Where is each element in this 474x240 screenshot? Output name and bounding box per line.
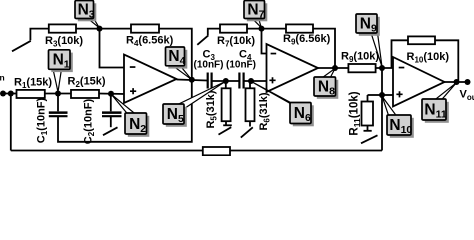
svg-text:R11(10k): R11(10k) <box>349 91 362 135</box>
node N10 tail <box>382 97 396 116</box>
node N8 box <box>317 80 339 99</box>
node N3 tail <box>88 18 100 28</box>
op-amp U2 plus sign <box>269 77 275 83</box>
op-amp U1 <box>124 55 177 104</box>
svg-text:R7(10k): R7(10k) <box>217 35 255 48</box>
resistor R8 <box>286 24 313 32</box>
node N4 box <box>168 50 187 69</box>
op-amp U2 minus sign <box>271 53 277 55</box>
switch S3 blade (R5 fault switch) <box>219 127 232 134</box>
resistor R6 (vertical) <box>249 81 251 88</box>
resistor R1 <box>17 90 45 98</box>
wire left feedback riser <box>10 94 12 151</box>
wire R9 to U3 -in <box>376 67 394 69</box>
resistor R9 <box>348 64 375 72</box>
node N8 tail <box>323 69 335 78</box>
resistor R10 <box>408 36 435 44</box>
node N4 tail <box>173 66 192 80</box>
node N2 box <box>128 116 150 137</box>
wire R1 to node A <box>45 93 71 95</box>
node output terminal <box>465 79 471 85</box>
resistor R4 <box>131 24 159 32</box>
wire R4 feedback to U1 output column <box>159 29 192 79</box>
node N6 tail <box>251 82 296 108</box>
svg-text:R2(15k): R2(15k) <box>68 76 106 89</box>
node U2 output <box>332 65 338 71</box>
wire U1 -in drop <box>100 29 125 68</box>
callout tails <box>53 18 456 115</box>
op-amp U3 plus sign <box>396 91 402 97</box>
node C3-C4 (R5 top) <box>223 78 229 84</box>
wire U2 -in drop <box>262 29 268 54</box>
wire bottom feedback rail <box>11 150 382 152</box>
resistor R3 <box>49 24 76 32</box>
node N9 box <box>359 17 380 36</box>
node N1 tail <box>53 69 62 92</box>
switch S6 blade (R11 fault switch) <box>361 135 378 143</box>
svg-text:R4(6.56k): R4(6.56k) <box>126 35 174 48</box>
wire C1 bottom to U1 output rail <box>58 79 192 142</box>
node R3-R4 (U1 -in net) <box>97 26 103 32</box>
resistor R11 (vertical) <box>368 94 383 96</box>
wire R10 left to -in3 <box>392 40 409 68</box>
wire U2 output / R9 row <box>318 67 348 69</box>
capacitor C3 (series) <box>207 73 209 89</box>
capacitor C2 <box>110 94 112 112</box>
node N10 box <box>390 118 414 138</box>
node N11 tail <box>436 83 457 100</box>
svg-text:R6(31k): R6(31k) <box>258 92 271 130</box>
op-amp U2 <box>267 44 319 92</box>
op-amp U3 minus sign <box>399 67 405 69</box>
capacitor C4 (series) <box>238 73 240 89</box>
node B (R2-C2-U1 +in junction) <box>108 91 114 97</box>
node input terminal <box>0 91 6 97</box>
resistor R5 (vertical) <box>225 81 227 88</box>
wire U1 output <box>177 80 208 81</box>
resistor R2 <box>71 90 99 98</box>
svg-text:C2(10nF): C2(10nF) <box>83 98 96 144</box>
node N2 tail <box>112 95 135 114</box>
svg-text:R1(15k): R1(15k) <box>14 77 52 90</box>
node N6 box <box>293 105 314 126</box>
node N7 tail <box>252 18 261 27</box>
svg-text:(10nF): (10nF) <box>226 59 256 70</box>
callout boxes <box>49 1 449 138</box>
node N5 box <box>166 107 187 127</box>
wire U3 output <box>445 81 471 83</box>
node A (R1-R2-C1 junction) <box>55 91 61 97</box>
node R9 out <box>379 65 385 71</box>
wire R8 feedback to U2 output column <box>313 29 335 68</box>
wire +in3 column down to feedback rail <box>381 68 383 151</box>
svg-text:(10nF): (10nF) <box>194 59 224 70</box>
wire R2 to node B <box>99 93 125 96</box>
wire R7 to R8 <box>247 28 286 30</box>
switch S1 blade (R3 fault switch) <box>12 41 31 52</box>
node U1 output <box>189 77 195 83</box>
switch S4 blade (R6 fault switch) <box>241 127 253 137</box>
resistor R7 <box>220 24 247 32</box>
svg-text:R9(6.56k): R9(6.56k) <box>283 33 331 46</box>
op-amp U1 minus sign <box>130 66 136 68</box>
svg-text:C1(10nF): C1(10nF) <box>36 97 49 143</box>
svg-text:R9(10k): R9(10k) <box>341 51 379 64</box>
node feedback-input junction <box>8 91 14 97</box>
wire R10 right to output <box>435 40 458 82</box>
wire R3 to R4 <box>76 28 131 30</box>
wire +in3 to U3 <box>382 94 395 96</box>
wire top row R7 branch <box>208 29 220 35</box>
op-amp U3 <box>393 57 445 107</box>
wire top row R3 branch <box>30 29 48 41</box>
node N1 box <box>51 53 73 73</box>
switch S2 blade (C2 fault switch) <box>103 127 118 135</box>
node N7 box <box>247 3 267 21</box>
wire C3 to C4 <box>212 80 239 82</box>
op-amp U1 plus sign <box>130 88 136 94</box>
node N5 tail <box>178 82 225 109</box>
node U3 output <box>454 79 460 85</box>
svg-text:n: n <box>0 73 5 83</box>
node N3 box <box>78 3 97 21</box>
capacitor C1 <box>57 94 59 112</box>
node C4 out (U2 +in, R6 top) <box>248 78 254 84</box>
switch S5 blade (R7 fault switch) <box>197 35 208 45</box>
wire input row <box>1 93 17 95</box>
node N11 box <box>425 102 449 123</box>
wire C4 to U2 +in <box>244 80 268 82</box>
resistor Rf (feedback, unlabeled) <box>203 147 230 155</box>
node N9 tail <box>371 33 382 67</box>
node U3 +in <box>379 92 385 98</box>
svg-text:R5(31k): R5(31k) <box>205 90 218 128</box>
node R7-R8 (U2 -in net) <box>259 26 265 32</box>
svg-text:R3(10k): R3(10k) <box>45 35 83 48</box>
svg-text:R10(10k): R10(10k) <box>407 51 450 64</box>
